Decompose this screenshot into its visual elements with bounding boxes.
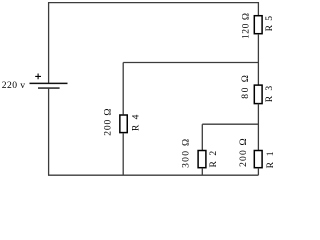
svg-text:R3: R3 [264, 86, 275, 103]
battery plate positive (long) [30, 82, 68, 84]
svg-text:80 Ω: 80 Ω [240, 75, 251, 99]
wire R4 branch upper lead [122, 63, 124, 115]
wire right segment top (into R5) [257, 2, 259, 15]
resistor R3 [240, 75, 275, 104]
resistor R3 body [254, 85, 262, 104]
wire R2 branch horizontal (node R3/R2/R1) [202, 123, 258, 125]
svg-text:R4: R4 [130, 114, 141, 131]
resistor R1 [238, 138, 276, 168]
svg-text:R5: R5 [264, 16, 275, 32]
svg-text:200 Ω: 200 Ω [102, 109, 113, 136]
resistor R5 [240, 13, 275, 39]
svg-text:R2: R2 [208, 151, 219, 168]
resistor R4 body [120, 115, 127, 133]
svg-text:R1: R1 [265, 151, 276, 168]
wire top (node between battery + and R5) [48, 2, 258, 4]
resistor R1 body [254, 151, 262, 168]
wire right segment R1 to bottom [257, 168, 259, 175]
polarity plus sign [35, 74, 41, 80]
wire left lower (battery - lead down to bottom wire) [48, 88, 50, 175]
battery plate negative (short) [38, 87, 60, 89]
wire bottom (node battery - / R4 / R2 / R1) [48, 174, 258, 176]
svg-text:200 Ω: 200 Ω [238, 138, 249, 167]
resistor R2 body [198, 151, 206, 168]
battery 220 v [2, 74, 68, 91]
resistor R5 body [254, 16, 262, 34]
resistor R4 [102, 109, 141, 136]
resistor R2 [181, 139, 219, 168]
wire left upper (battery + lead) [48, 2, 50, 83]
svg-text:220 v: 220 v [2, 80, 26, 91]
wire middle horizontal (node R5/R3/R4) [123, 62, 258, 64]
wire right segment R3 to R1 (through R2 node) [257, 104, 259, 151]
svg-text:120 Ω: 120 Ω [240, 13, 251, 39]
wire right segment R5 to R3 (through middle node) [257, 35, 259, 85]
svg-text:300 Ω: 300 Ω [181, 139, 192, 168]
wire R4 branch lower lead [122, 134, 124, 176]
wire R2 branch lower lead [201, 168, 203, 175]
wire R2 branch upper lead [201, 124, 203, 150]
